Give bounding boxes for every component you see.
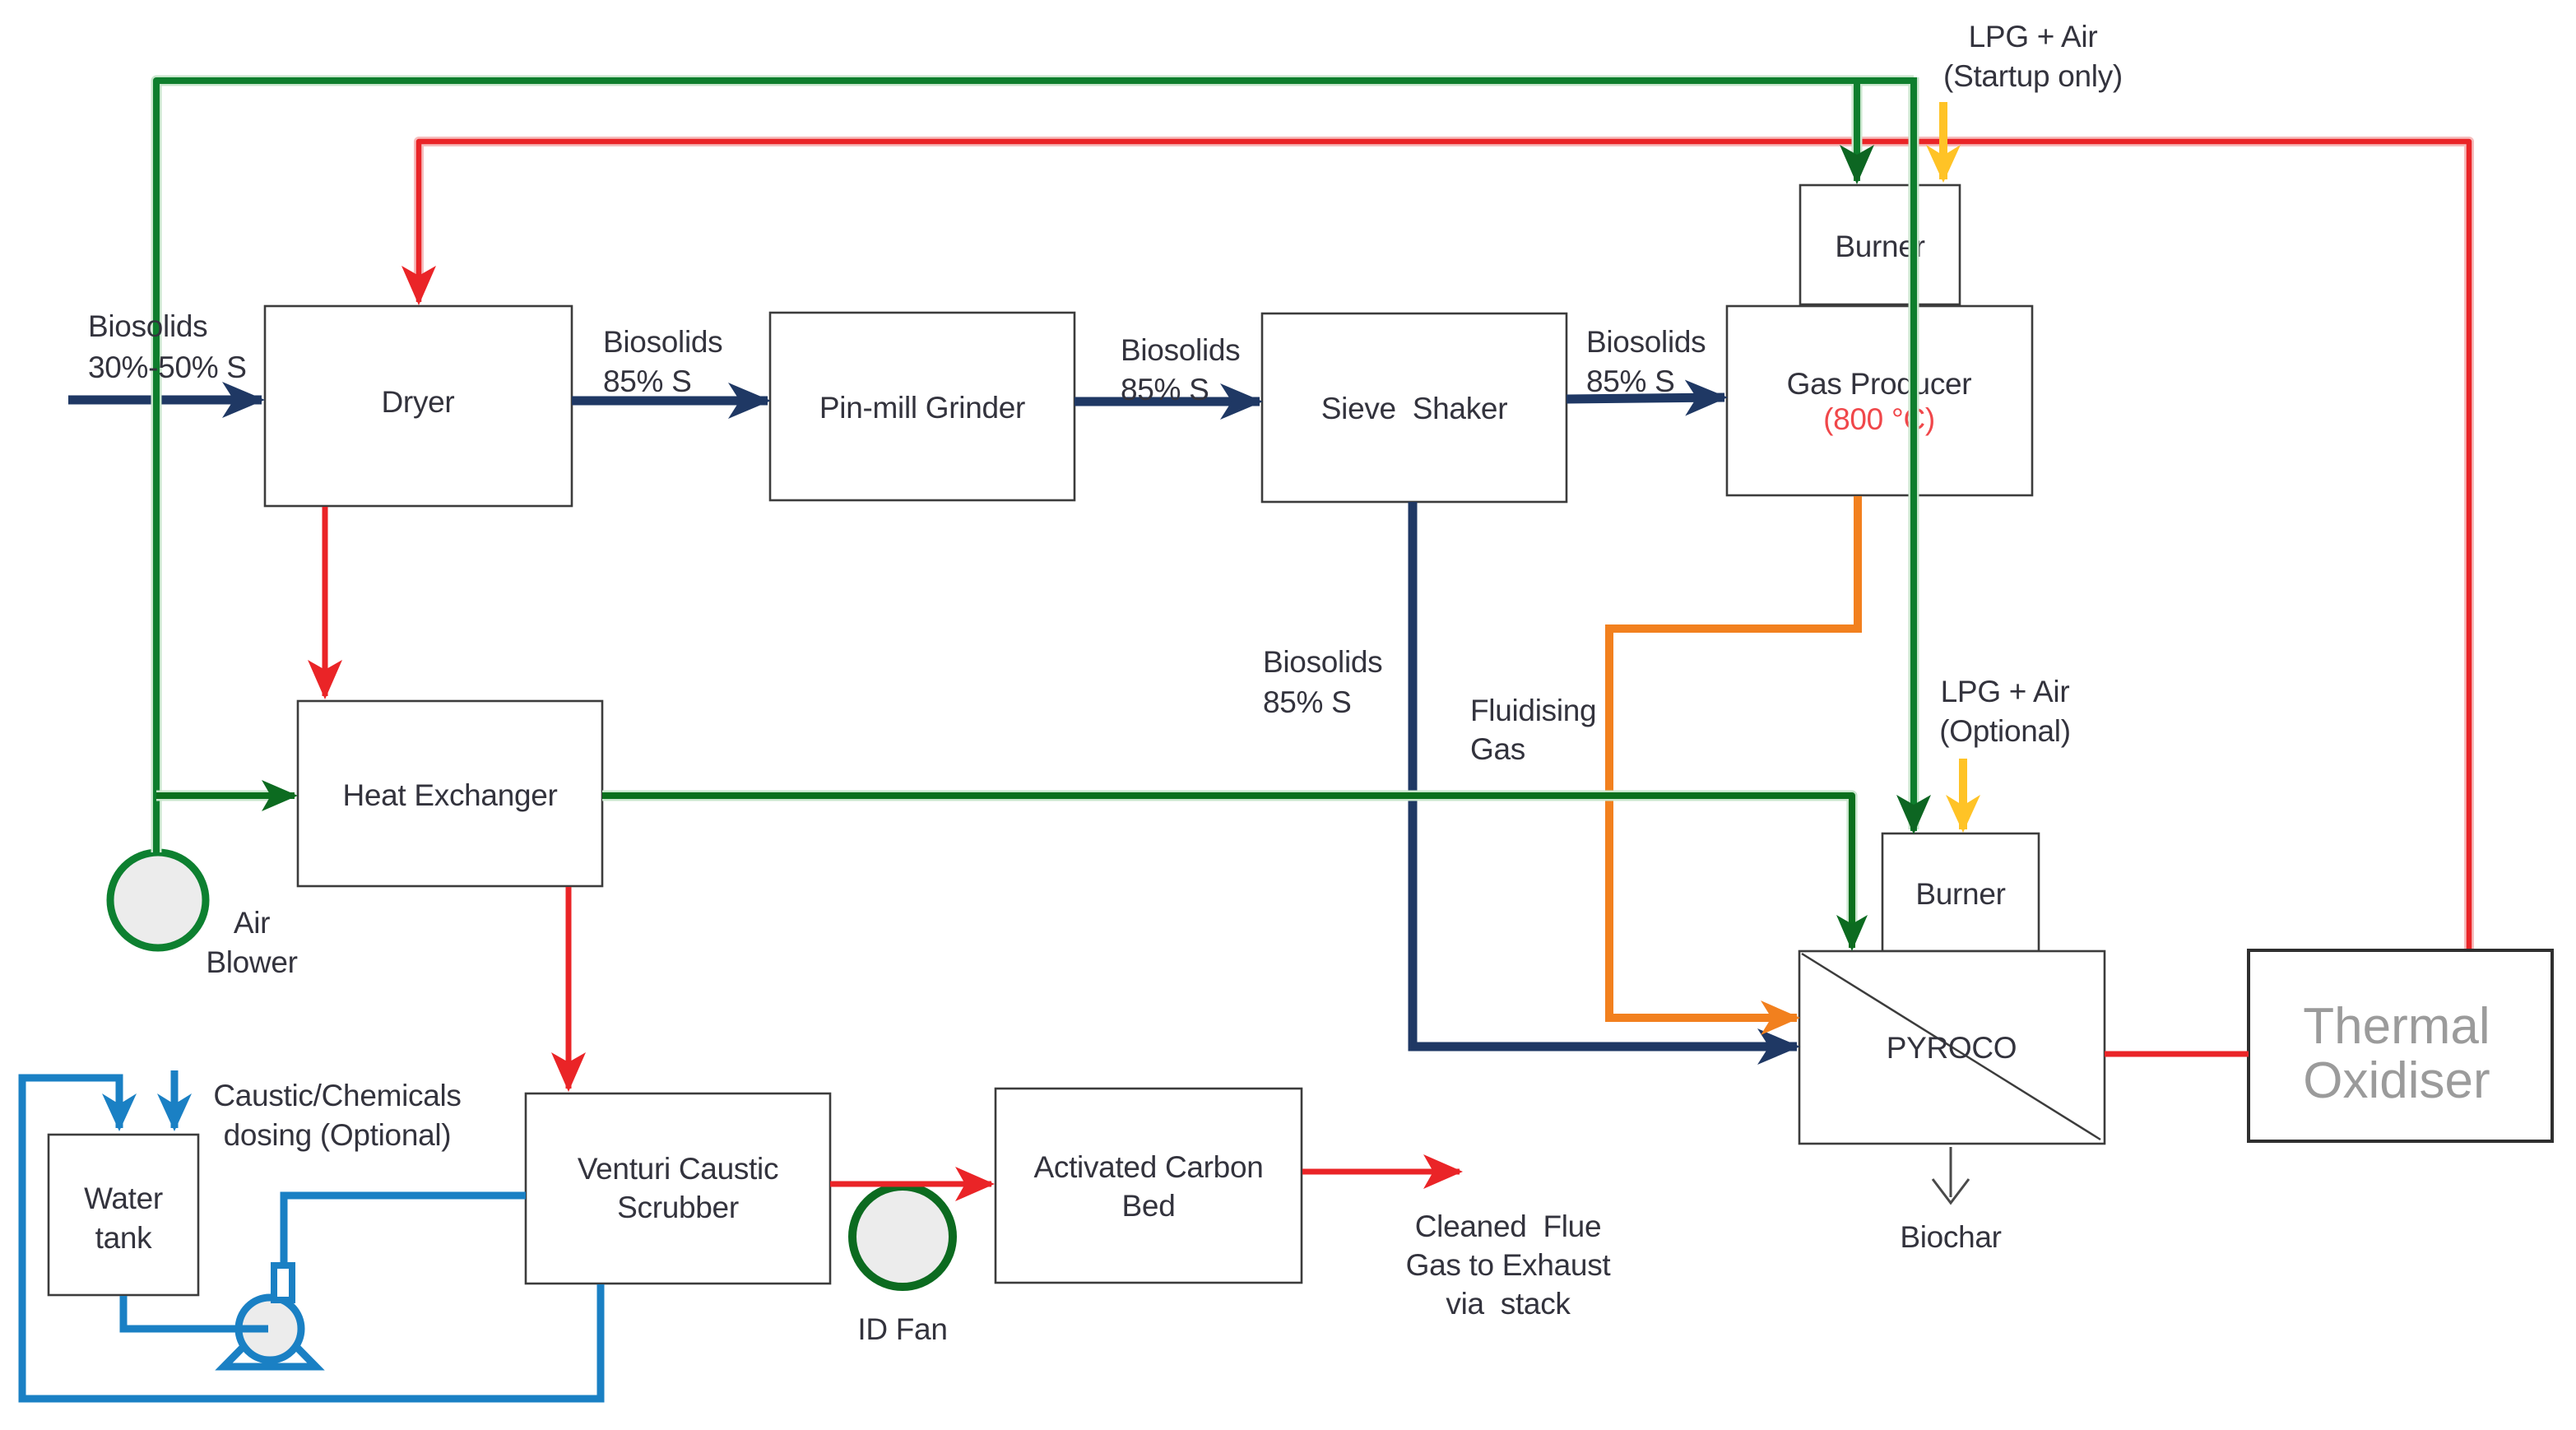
label Biosolids 85% S (before gas producer)	[1586, 325, 1706, 398]
box Gas Producer	[1727, 306, 2032, 495]
svg-text:(Optional): (Optional)	[1939, 714, 2070, 748]
label Caustic/Chemicals dosing (Optional)	[213, 1079, 461, 1152]
wire blue caustic dosing arrow	[171, 1070, 179, 1128]
wire navy sieve shaker to gas producer	[1566, 397, 1724, 399]
svg-text:Scrubber: Scrubber	[617, 1191, 739, 1224]
wire blue water tank to pump	[123, 1296, 268, 1329]
svg-text:85% S: 85% S	[1586, 364, 1675, 398]
box Activated Carbon Bed	[996, 1089, 1302, 1283]
box Water tank	[49, 1135, 198, 1295]
svg-text:Cleaned Flue: Cleaned Flue	[1415, 1209, 1601, 1243]
svg-text:PYROCO: PYROCO	[1887, 1031, 2017, 1065]
wire navy sieve shaker to PYROCO	[1413, 502, 1797, 1047]
svg-text:Activated Carbon: Activated Carbon	[1033, 1150, 1263, 1184]
svg-text:85% S: 85% S	[603, 364, 692, 398]
svg-text:LPG + Air: LPG + Air	[1969, 20, 2098, 53]
label Air Blower	[206, 906, 297, 979]
box Burner 1	[1800, 185, 1960, 304]
svg-text:Blower: Blower	[206, 945, 297, 979]
wire green air to heat exchanger	[156, 791, 295, 801]
svg-text:Biosolids: Biosolids	[88, 309, 207, 343]
svg-text:tank: tank	[95, 1221, 153, 1255]
svg-text:Burner: Burner	[1915, 877, 2005, 911]
label Biosolids 85% S (vertical line to PYROCO)	[1263, 645, 1382, 719]
wire red heat exchanger to scrubber	[566, 887, 572, 1089]
wire yellow LPG optional to burner 2	[1959, 759, 1967, 829]
svg-text:Thermal: Thermal	[2303, 998, 2490, 1055]
label Fluidising Gas	[1470, 694, 1596, 766]
svg-text:Biosolids: Biosolids	[603, 325, 722, 359]
wire red flue gas recycle from thermal oxidiser to dryer	[419, 142, 2469, 949]
svg-text:Venturi Caustic: Venturi Caustic	[578, 1152, 778, 1186]
svg-text:Biochar: Biochar	[1900, 1220, 2001, 1254]
label Biosolids 85% S (after dryer)	[603, 325, 722, 398]
wire green air supply loop	[156, 77, 1914, 852]
box Sieve Shaker	[1262, 313, 1566, 502]
svg-text:Dryer: Dryer	[382, 385, 455, 419]
svg-text:dosing (Optional): dosing (Optional)	[224, 1118, 452, 1152]
box Heat Exchanger	[298, 701, 602, 886]
box Pin-mill Grinder	[770, 313, 1074, 500]
svg-text:Biosolids: Biosolids	[1586, 325, 1706, 359]
wire red dryer to heat exchanger	[323, 507, 328, 696]
svg-text:(Startup only): (Startup only)	[1943, 59, 2123, 93]
wire green heated air from heat exchanger to PYROCO	[602, 796, 1852, 948]
svg-text:Water: Water	[84, 1182, 163, 1215]
svg-text:Bed: Bed	[1122, 1189, 1176, 1223]
svg-text:85% S: 85% S	[1121, 373, 1209, 406]
box PYROCO	[1799, 951, 2105, 1144]
box Venturi Caustic Scrubber	[526, 1093, 830, 1284]
svg-text:ID Fan: ID Fan	[857, 1312, 947, 1346]
svg-text:Fluidising: Fluidising	[1470, 694, 1596, 727]
wire yellow LPG startup to burner 1	[1939, 102, 1947, 179]
svg-text:30%-50% S: 30%-50% S	[88, 351, 247, 384]
label LPG + Air (Optional)	[1939, 675, 2070, 748]
wire navy pin-mill to sieve shaker	[1074, 397, 1260, 406]
ID fan circle	[852, 1186, 953, 1287]
wire red PYROCO to thermal oxidiser	[2105, 1052, 2249, 1057]
air blower circle	[110, 852, 206, 948]
box Burner 2	[1882, 833, 2039, 951]
wire navy biosolids feed to dryer	[68, 396, 262, 405]
svg-text:Gas: Gas	[1470, 732, 1525, 766]
box Thermal Oxidiser	[2249, 950, 2552, 1141]
pump P1	[224, 1265, 316, 1367]
wire navy dryer to pin-mill grinder	[572, 397, 768, 406]
biochar arrow	[1933, 1147, 1969, 1203]
svg-text:via stack: via stack	[1446, 1287, 1571, 1321]
svg-text:Gas to Exhaust: Gas to Exhaust	[1406, 1248, 1612, 1282]
wire blue water tank recirculation loop	[22, 1078, 601, 1399]
svg-text:LPG + Air: LPG + Air	[1941, 675, 2070, 708]
svg-text:Air: Air	[234, 906, 270, 940]
label Cleaned Flue Gas to Exhaust via stack	[1406, 1209, 1612, 1321]
svg-text:Biosolids: Biosolids	[1121, 333, 1240, 367]
wire blue scrubber to pump	[284, 1196, 526, 1262]
label Biosolids 85% S (after pin-mill)	[1121, 333, 1240, 406]
box Dryer	[265, 306, 572, 506]
svg-text:Oxidiser: Oxidiser	[2303, 1052, 2490, 1109]
svg-text:Pin-mill Grinder: Pin-mill Grinder	[819, 391, 1025, 425]
wire orange fluidising gas from gas producer to PYROCO	[1609, 496, 1858, 1018]
svg-text:85% S: 85% S	[1263, 685, 1352, 719]
label Biosolids 30%-50% S	[88, 309, 247, 384]
wire red scrubber to activated carbon bed	[830, 1182, 991, 1187]
svg-text:Biosolids: Biosolids	[1263, 645, 1382, 679]
svg-text:Heat Exchanger: Heat Exchanger	[342, 778, 557, 812]
label LPG + Air (Startup only)	[1943, 20, 2123, 93]
wire red carbon bed to exhaust	[1302, 1169, 1460, 1175]
svg-text:Gas Producer: Gas Producer	[1787, 367, 1972, 401]
svg-text:Sieve Shaker: Sieve Shaker	[1321, 392, 1507, 425]
svg-text:Caustic/Chemicals: Caustic/Chemicals	[213, 1079, 461, 1112]
